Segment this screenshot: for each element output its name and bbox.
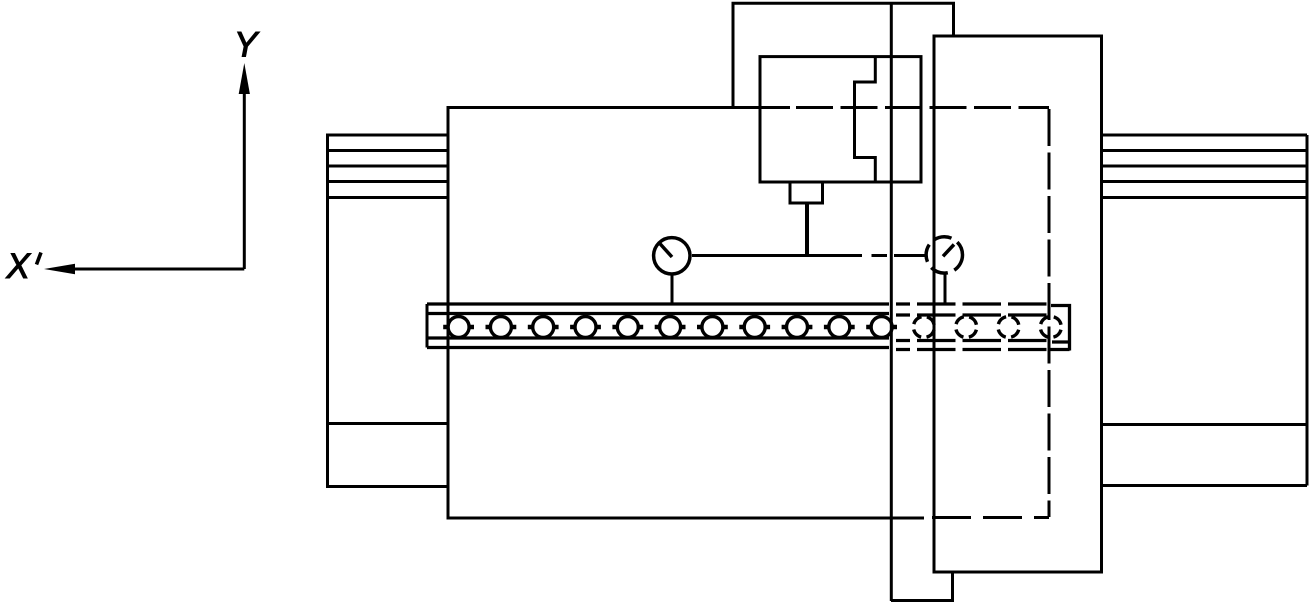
bar outer bottom hidden (dashed) xyxy=(896,348,1049,351)
right block bottom edge xyxy=(1102,484,1308,487)
column vertical line xyxy=(890,3,893,601)
bar outer bottom line xyxy=(427,346,889,349)
hidden saddle bottom edge (dashed) xyxy=(932,516,1049,519)
bar inner bottom line xyxy=(427,336,889,339)
left block rail line 3 xyxy=(328,180,449,183)
left block rail line 1 xyxy=(328,149,449,152)
shaft coupler xyxy=(790,182,823,203)
right block rail top xyxy=(1102,134,1308,137)
dial indicator right (hidden, dashed) xyxy=(926,237,962,273)
main table bottom edge xyxy=(447,517,925,520)
top head rectangle xyxy=(733,3,954,107)
right block rail line 4 xyxy=(1102,196,1308,199)
main table left edge xyxy=(447,108,450,519)
ball side nubs xyxy=(866,325,897,330)
dial indicator left xyxy=(654,238,690,274)
bar right end hidden (dashed) xyxy=(1051,306,1070,351)
ball side nubs xyxy=(443,325,474,330)
bar outer top hidden (dashed) xyxy=(896,302,1049,305)
screw ball 9 xyxy=(787,317,808,338)
screw ball 6 xyxy=(660,317,681,338)
connecting line between dials xyxy=(692,254,862,257)
right block rail line 1 xyxy=(1102,149,1308,152)
hidden saddle top edge (dashed) xyxy=(796,106,1049,109)
bar inner top hidden (dashed) xyxy=(896,313,1052,316)
axis Y arrow line xyxy=(243,94,246,269)
motor step notch xyxy=(855,57,876,182)
connecting line hidden dash xyxy=(872,254,888,257)
ball side nubs xyxy=(655,325,686,330)
left block rail line 4 xyxy=(328,196,449,199)
screw ball 3 xyxy=(533,317,554,338)
axis Y arrowhead xyxy=(239,63,250,94)
ball side nubs xyxy=(570,325,601,330)
screw ball 4 xyxy=(575,317,596,338)
screw ball 1 xyxy=(448,317,469,338)
right block rail line 2 xyxy=(1102,165,1308,168)
screw ball 10 xyxy=(829,317,850,338)
left block divider xyxy=(328,422,449,425)
svg-text:Y: Y xyxy=(234,26,260,65)
screw ball 8 xyxy=(744,317,765,338)
bar right end bottom connectors (hidden) xyxy=(1050,342,1070,350)
hidden saddle right edge (dashed) xyxy=(1048,109,1051,517)
screw ball 2 xyxy=(490,317,511,338)
ball side nubs xyxy=(486,325,517,330)
screw ball 12 hidden (dashed) xyxy=(913,317,934,338)
connecting line right part xyxy=(894,254,925,257)
dial left stem xyxy=(671,274,674,304)
right block right edge xyxy=(1306,135,1309,486)
svg-text:X: X xyxy=(6,247,32,286)
ball side nubs xyxy=(697,325,728,330)
dial right stem xyxy=(944,273,947,303)
screw ball 15 hidden (dashed) xyxy=(1040,317,1061,338)
column tall rectangle xyxy=(934,36,1102,572)
right block divider xyxy=(1102,423,1308,426)
bar inner bottom hidden (dashed) xyxy=(896,339,1052,342)
axis label prime mark xyxy=(37,253,42,265)
ball side nubs xyxy=(612,325,643,330)
screw ball 7 xyxy=(702,317,723,338)
dial right needle xyxy=(943,245,954,257)
ball screw bar left end xyxy=(426,304,429,348)
left block rail line 2 xyxy=(328,165,449,168)
bar outer top line xyxy=(427,302,889,305)
column base protrusion xyxy=(891,572,953,601)
axis X arrowhead xyxy=(44,264,75,274)
motor housing rectangle xyxy=(760,57,921,182)
ball side nubs xyxy=(824,325,855,330)
ball side nubs xyxy=(739,325,770,330)
screw ball 13 hidden (dashed) xyxy=(956,317,977,338)
ball side nubs xyxy=(782,325,813,330)
shaft line xyxy=(805,203,809,256)
axis X arrow line xyxy=(73,268,244,271)
dial left needle xyxy=(659,243,672,258)
right block rail line 3 xyxy=(1102,180,1308,183)
screw ball 5 xyxy=(617,317,638,338)
screw ball 11 xyxy=(871,317,892,338)
bar inner top line xyxy=(427,312,889,315)
ball side nubs xyxy=(528,325,559,330)
left block outline xyxy=(328,135,449,487)
screw ball 14 hidden (dashed) xyxy=(998,317,1019,338)
main table top edge xyxy=(447,106,791,109)
